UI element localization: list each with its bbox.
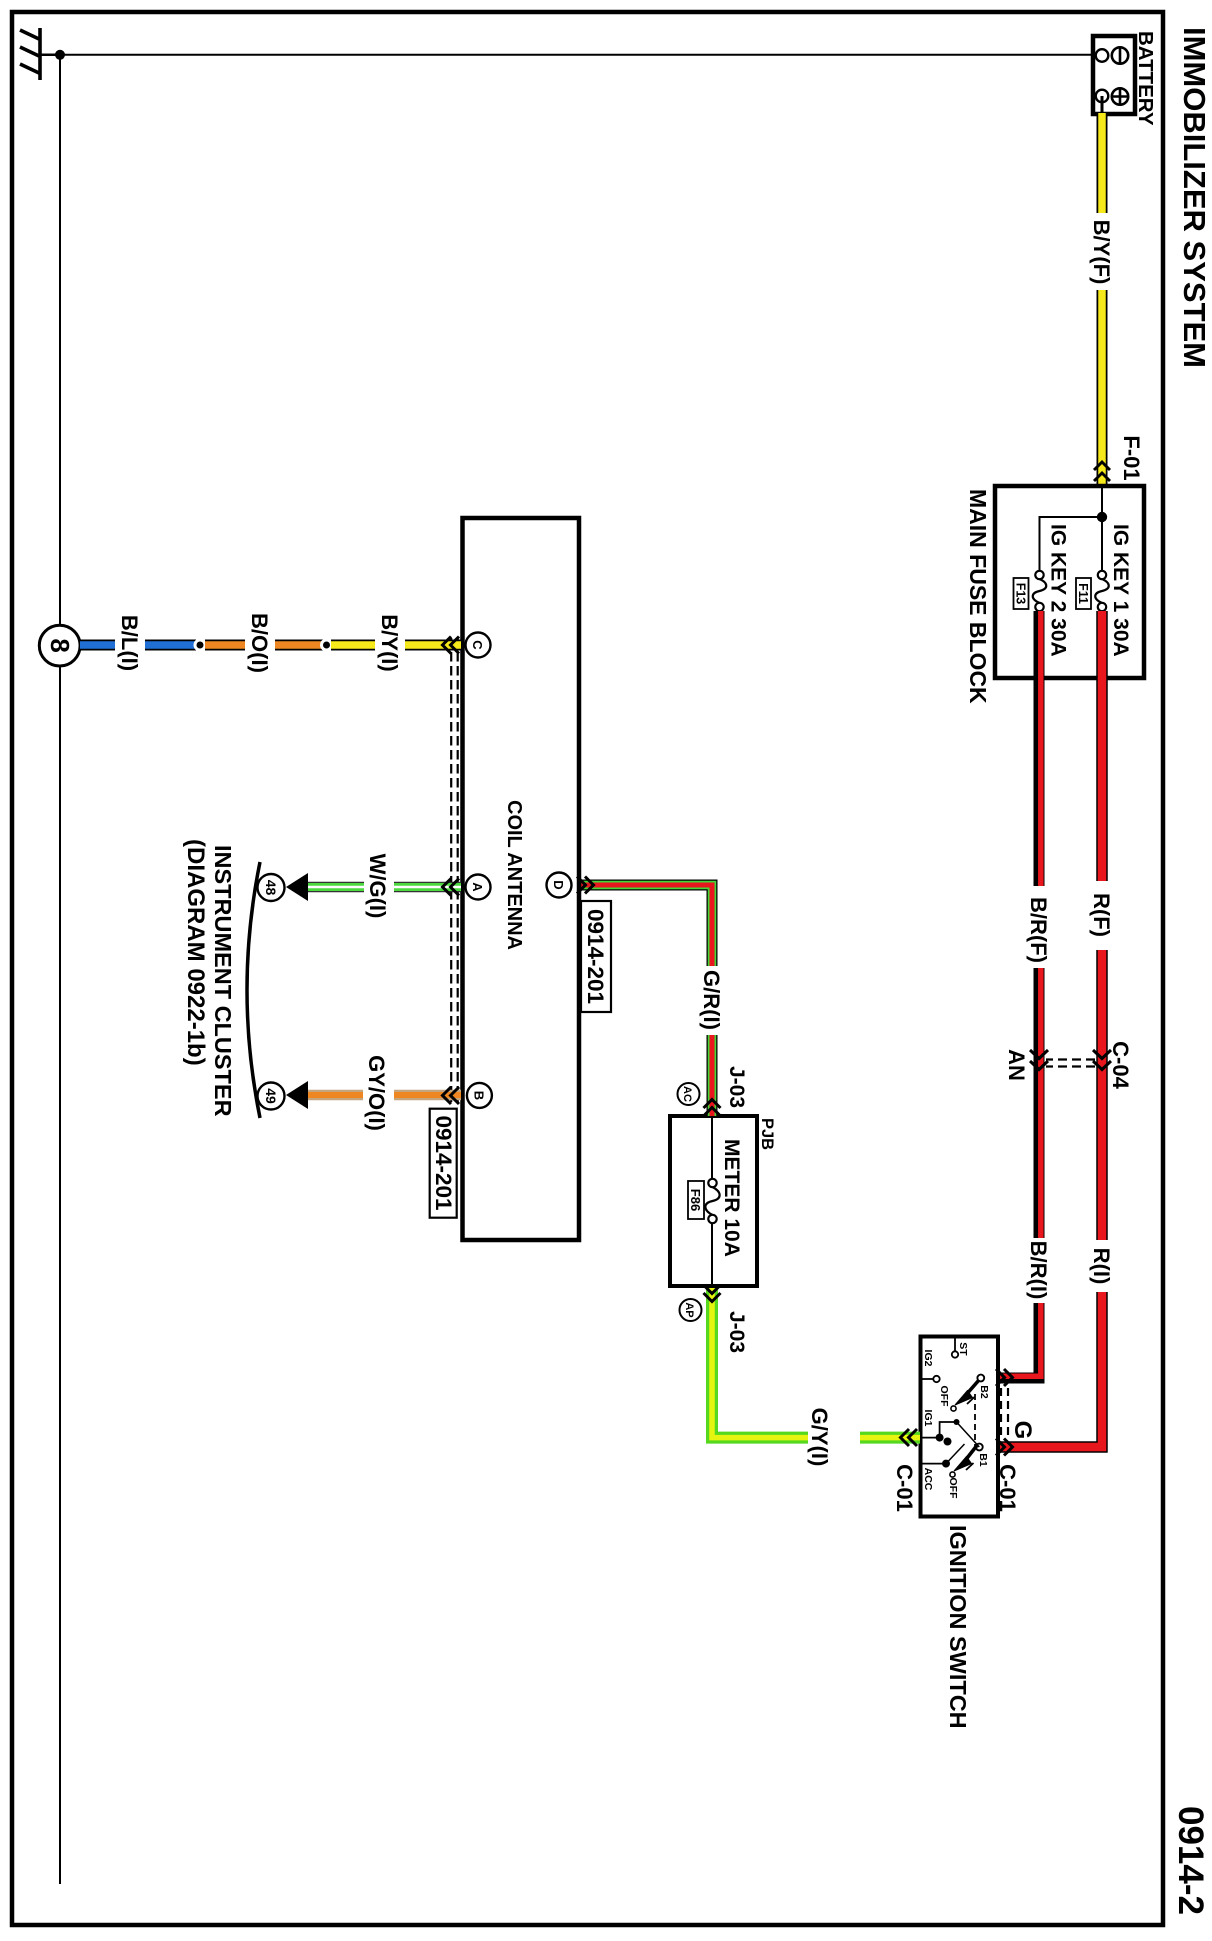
IG1 contact dots xyxy=(936,1434,944,1442)
svg-text:ST: ST xyxy=(957,1342,969,1356)
connector C-04 chevrons on B/R wire xyxy=(1030,1050,1048,1070)
connector chevrons at PJB AP xyxy=(704,1285,721,1302)
svg-text:IMMOBILIZER SYSTEM: IMMOBILIZER SYSTEM xyxy=(1177,27,1212,368)
svg-text:G/Y(I): G/Y(I) xyxy=(807,1408,832,1467)
svg-text:MAIN FUSE BLOCK: MAIN FUSE BLOCK xyxy=(965,489,991,704)
wire B/Y(I) segment 1 xyxy=(331,640,375,651)
wire B/L(I) segment 1 xyxy=(80,640,115,651)
ignition switch pin ACC stub xyxy=(922,1463,946,1465)
svg-text:F11: F11 xyxy=(1076,583,1090,604)
svg-text:AC: AC xyxy=(681,1086,693,1102)
svg-text:INSTRUMENT CLUSTER: INSTRUMENT CLUSTER xyxy=(210,845,236,1117)
wire B/R(F) segment 1 xyxy=(1039,611,1041,886)
wire battery negative to ground bus xyxy=(60,54,1100,56)
wire B/R(I) segment to ignition switch B2 xyxy=(1000,1303,1041,1378)
lever gang dashed link xyxy=(974,1394,976,1446)
internal wire junction to F13 branch xyxy=(1040,517,1103,571)
wire R(I) segment to ignition switch B1 xyxy=(1000,1292,1102,1447)
svg-text:8: 8 xyxy=(45,638,75,652)
svg-text:PJB: PJB xyxy=(758,1118,776,1150)
wire G/Y(I) segment 2 xyxy=(712,1287,808,1438)
ignition switch lever B1 to OFF xyxy=(954,1445,977,1471)
battery negative pin xyxy=(1096,49,1109,62)
fuse F86 METER 10A xyxy=(705,1179,719,1223)
arrow to instrument cluster pin 49 xyxy=(286,1081,308,1109)
ignition switch pin ST xyxy=(952,1351,958,1357)
coil antenna box xyxy=(463,518,580,1240)
connector chevrons at ignition B1 xyxy=(996,1439,1013,1456)
wire B/O(I) segment 2 xyxy=(275,640,323,651)
svg-text:AN: AN xyxy=(1004,1049,1029,1081)
ACC contact dot xyxy=(942,1460,950,1468)
wire GY/O(I) segment 1 xyxy=(394,1090,461,1101)
instrument cluster brace xyxy=(247,862,260,1118)
svg-text:F86: F86 xyxy=(688,1189,703,1211)
svg-text:B2: B2 xyxy=(978,1385,990,1399)
fuse F86 label box xyxy=(688,1181,704,1219)
wire G/Y(I) segment 1 xyxy=(860,1432,920,1444)
contact OFF circle lower xyxy=(950,1472,955,1477)
wire G/R(I) segment 2 xyxy=(707,1035,718,1116)
svg-text:R(F): R(F) xyxy=(1089,893,1114,937)
ACC contact line xyxy=(946,1444,965,1464)
PJB internal wire right xyxy=(711,1223,713,1286)
svg-text:IG KEY 1 30A: IG KEY 1 30A xyxy=(1109,524,1132,657)
fuse F13 label box xyxy=(1014,578,1029,609)
coil antenna pin D xyxy=(547,873,572,898)
svg-text:W/G(I): W/G(I) xyxy=(365,854,390,919)
internal wire from F-01 to junction xyxy=(1101,486,1103,571)
splice dot 2 xyxy=(320,639,333,652)
PJB box xyxy=(670,1116,757,1286)
IG1 contact dot xyxy=(954,1419,960,1425)
chassis ground symbol xyxy=(20,28,40,80)
PJB internal wire left xyxy=(711,1116,713,1179)
connector chevrons at coil C xyxy=(443,637,460,654)
battery B+ / B- box xyxy=(1093,36,1135,114)
svg-text:IG2: IG2 xyxy=(922,1350,934,1367)
svg-text:B/R(I): B/R(I) xyxy=(1026,1241,1051,1300)
wire W/G(I) segment 2 xyxy=(306,882,364,893)
connector F-01 chevrons xyxy=(1094,462,1110,481)
wire B/Y(F) segment 2 xyxy=(1097,290,1108,486)
coil antenna connector dashed lines xyxy=(451,638,458,1102)
connector chevrons at coil A xyxy=(443,879,460,896)
svg-text:R(I): R(I) xyxy=(1089,1248,1114,1285)
svg-text:B/Y(I): B/Y(I) xyxy=(377,614,402,671)
connector chevrons at coil D xyxy=(577,877,594,894)
contact line to B1 pivot xyxy=(957,1422,980,1447)
svg-text:C: C xyxy=(470,640,485,650)
ignition switch pin ST stub xyxy=(954,1338,956,1351)
wire R(F) segment 1 xyxy=(1096,611,1108,881)
svg-text:B/O(I): B/O(I) xyxy=(247,613,272,673)
wire B/O(I) segment 1 xyxy=(205,640,245,651)
svg-text:IG1: IG1 xyxy=(922,1410,934,1427)
svg-text:GY/O(I): GY/O(I) xyxy=(364,1055,389,1131)
svg-text:0914-201: 0914-201 xyxy=(583,909,608,1004)
svg-text:C-01: C-01 xyxy=(892,1464,917,1512)
node 8 circle xyxy=(39,625,80,666)
svg-text:COIL ANTENNA: COIL ANTENNA xyxy=(503,800,525,950)
fuse F13 IG KEY 2 30A xyxy=(1033,571,1047,611)
ignition switch pin B2 xyxy=(977,1375,984,1382)
svg-text:METER 10A: METER 10A xyxy=(720,1139,743,1257)
battery positive pin xyxy=(1096,90,1109,103)
svg-text:IG KEY 2 30A: IG KEY 2 30A xyxy=(1047,524,1070,657)
label box 0914-201 upper xyxy=(581,901,611,1012)
wire B/Y(F) battery to F-01 segment 1 xyxy=(1101,96,1104,113)
svg-text:OFF: OFF xyxy=(947,1478,959,1500)
svg-text:J-03: J-03 xyxy=(725,1311,748,1353)
junction node dot xyxy=(1097,512,1107,522)
svg-text:49: 49 xyxy=(263,1088,279,1104)
svg-text:ACC: ACC xyxy=(922,1468,934,1491)
svg-text:B1: B1 xyxy=(977,1453,989,1467)
ground stub wire xyxy=(40,54,60,57)
connector C-01 dashed link xyxy=(1001,1388,1008,1437)
connector chevrons at coil B xyxy=(443,1087,460,1104)
circled 49 xyxy=(258,1083,285,1110)
battery plus terminal symbol xyxy=(1112,88,1128,104)
splice dot 1 xyxy=(194,639,207,652)
svg-text:C-04: C-04 xyxy=(1108,1041,1133,1089)
connector circle AP xyxy=(680,1299,702,1321)
svg-text:IGNITION SWITCH: IGNITION SWITCH xyxy=(945,1525,971,1729)
connector circle AC xyxy=(678,1083,700,1105)
ignition switch pin B1 xyxy=(976,1444,983,1451)
battery minus terminal symbol xyxy=(1112,47,1128,63)
coil antenna pin A xyxy=(466,875,491,900)
connector C-04 dashed link xyxy=(1046,1060,1095,1067)
coil antenna pin C xyxy=(466,633,491,658)
ignition switch box xyxy=(921,1337,999,1517)
svg-text:J-03: J-03 xyxy=(725,1066,748,1108)
svg-text:F-01: F-01 xyxy=(1119,435,1144,480)
wire GY/O(I) segment 2 xyxy=(306,1090,363,1101)
svg-text:B: B xyxy=(471,1091,486,1100)
svg-text:(DIAGRAM 0922-1b): (DIAGRAM 0922-1b) xyxy=(182,839,209,1066)
wire G/Y(I) chevrons at IG1 xyxy=(901,1429,918,1446)
fuse F11 label box xyxy=(1076,578,1091,609)
contact OFF circle upper xyxy=(951,1406,956,1411)
connector C-04 chevrons on R wire xyxy=(1093,1050,1111,1070)
circled 48 xyxy=(258,874,285,901)
IG1 contact wire xyxy=(940,1422,957,1438)
svg-text:D: D xyxy=(551,880,566,889)
svg-text:0914-201: 0914-201 xyxy=(431,1115,456,1210)
svg-text:BATTERY: BATTERY xyxy=(1134,31,1157,126)
wire B/Y(I) segment 2 xyxy=(405,640,461,651)
svg-text:AP: AP xyxy=(683,1302,695,1317)
connector chevrons at ignition B2 xyxy=(996,1369,1013,1386)
wire B/R(F) segment 2 xyxy=(1039,968,1041,1238)
wire B/L(I) segment 2 xyxy=(145,640,196,651)
ignition switch pin IG2 stub xyxy=(922,1378,933,1380)
svg-text:G/R(I): G/R(I) xyxy=(699,970,724,1030)
wire W/G(I) segment 1 xyxy=(394,882,461,893)
wire G/R(I) segment 1 from coil antenna D xyxy=(581,885,712,966)
main fuse block box xyxy=(995,486,1144,678)
svg-text:48: 48 xyxy=(263,880,279,896)
wire R(F) segment 2 xyxy=(1096,950,1108,1240)
svg-text:B/R(F): B/R(F) xyxy=(1026,897,1051,963)
svg-text:OFF: OFF xyxy=(938,1386,950,1408)
svg-text:A: A xyxy=(470,882,485,892)
connector chevrons at PJB AC xyxy=(704,1100,721,1117)
label box 0914-201 lower xyxy=(430,1109,457,1218)
ignition switch pin IG2 xyxy=(933,1376,939,1382)
ignition switch lever B2 to OFF xyxy=(955,1380,979,1405)
arrow to instrument cluster pin 48 xyxy=(286,873,308,901)
svg-text:G: G xyxy=(1009,1421,1036,1440)
coil antenna pin B xyxy=(467,1083,492,1108)
ignition switch pin IG1 stub xyxy=(922,1437,940,1439)
svg-text:0914-2: 0914-2 xyxy=(1171,1806,1210,1915)
fuse F11 IG KEY 1 30A xyxy=(1095,571,1109,611)
ground bus wire along bottom xyxy=(59,55,61,1884)
junction dot at battery/ground corner xyxy=(55,50,65,60)
svg-text:B/Y(F): B/Y(F) xyxy=(1089,220,1114,285)
svg-text:F13: F13 xyxy=(1014,583,1028,605)
svg-text:B/L(I): B/L(I) xyxy=(117,615,142,671)
